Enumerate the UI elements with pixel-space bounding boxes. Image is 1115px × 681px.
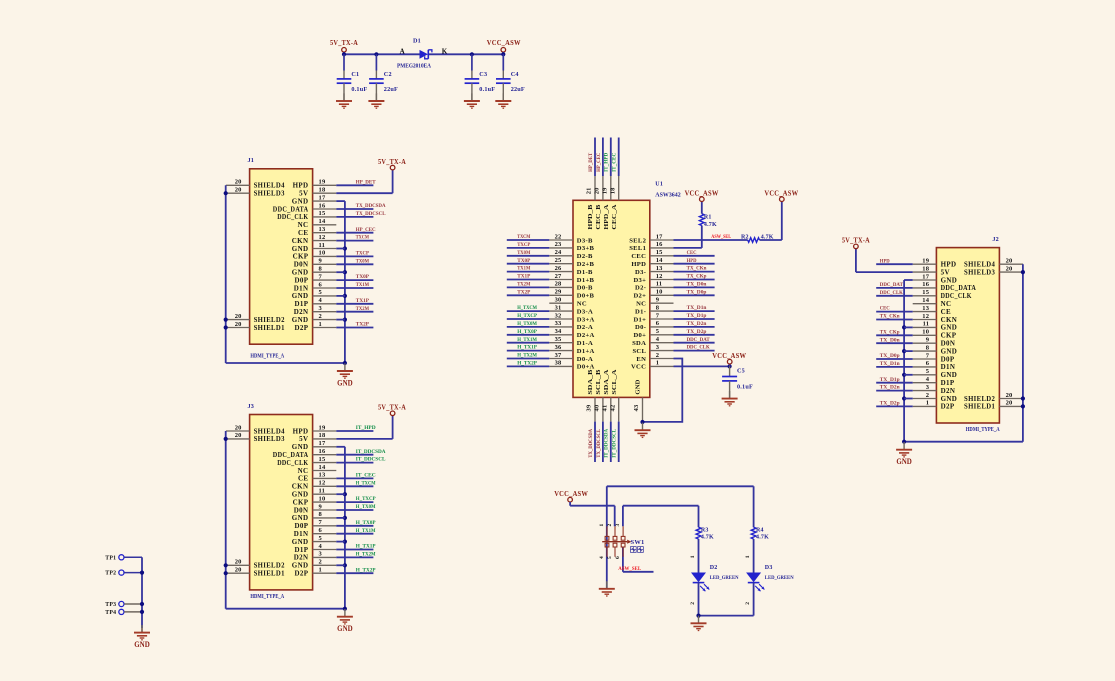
svg-text:2: 2 (319, 313, 322, 320)
svg-text:18: 18 (319, 432, 326, 439)
svg-text:SHIELD2: SHIELD2 (254, 562, 285, 570)
svg-text:37: 37 (555, 352, 562, 359)
svg-text:20: 20 (235, 424, 242, 431)
svg-text:H_TX0M: H_TX0M (356, 504, 376, 510)
svg-text:TXCP: TXCP (517, 242, 531, 248)
svg-text:TX_D1p: TX_D1p (880, 377, 900, 383)
svg-text:TP4: TP4 (105, 610, 116, 616)
svg-text:8: 8 (319, 266, 323, 273)
svg-text:J3: J3 (248, 403, 255, 410)
svg-text:SHIELD1: SHIELD1 (254, 570, 285, 578)
svg-text:6: 6 (319, 527, 323, 534)
svg-text:GND: GND (941, 347, 958, 355)
svg-text:7: 7 (926, 352, 930, 359)
svg-text:HP_DET: HP_DET (588, 153, 594, 172)
svg-text:HPD_B: HPD_B (587, 204, 594, 230)
svg-text:24: 24 (555, 249, 562, 256)
svg-text:2: 2 (319, 559, 322, 566)
svg-text:C1: C1 (351, 71, 359, 78)
svg-text:20: 20 (1006, 400, 1013, 407)
svg-text:D2-B: D2-B (577, 253, 593, 260)
svg-text:28: 28 (555, 281, 562, 288)
svg-text:GND: GND (635, 379, 642, 394)
svg-text:1: 1 (745, 555, 751, 558)
svg-text:H_TX2M: H_TX2M (356, 552, 376, 558)
svg-text:4.7K: 4.7K (756, 535, 769, 541)
svg-text:5V: 5V (299, 435, 308, 443)
svg-text:R2: R2 (741, 234, 749, 240)
svg-text:11: 11 (319, 488, 326, 495)
svg-text:4.7K: 4.7K (761, 234, 774, 240)
svg-text:13: 13 (319, 226, 326, 233)
svg-text:42: 42 (609, 405, 616, 412)
svg-text:TX_D0p: TX_D0p (687, 289, 707, 295)
svg-text:20: 20 (1006, 265, 1013, 272)
svg-text:D2: D2 (710, 565, 718, 571)
svg-text:1: 1 (690, 555, 696, 558)
svg-text:NC: NC (941, 300, 952, 308)
svg-text:10: 10 (319, 495, 326, 502)
svg-text:CE: CE (298, 229, 308, 237)
svg-text:6: 6 (615, 556, 621, 559)
svg-text:LED_GREEN: LED_GREEN (765, 575, 795, 581)
svg-text:20: 20 (235, 179, 242, 186)
svg-text:DDC_DATA: DDC_DATA (273, 205, 309, 213)
svg-text:11: 11 (319, 242, 326, 249)
svg-text:D1P: D1P (295, 546, 309, 554)
svg-text:41: 41 (601, 405, 608, 412)
svg-text:CEC: CEC (880, 306, 890, 312)
svg-text:C3: C3 (479, 71, 487, 78)
svg-text:30: 30 (555, 297, 562, 304)
svg-text:D1N: D1N (294, 284, 309, 292)
svg-text:HP_CEC: HP_CEC (596, 153, 602, 172)
svg-text:16: 16 (922, 281, 929, 288)
svg-text:VCC_ASW: VCC_ASW (487, 38, 521, 47)
svg-text:D0P: D0P (295, 276, 309, 284)
svg-text:CE: CE (298, 475, 308, 483)
svg-text:SEL2: SEL2 (629, 237, 646, 244)
svg-text:DDC_CLK: DDC_CLK (277, 459, 308, 467)
svg-text:VCC_ASW: VCC_ASW (685, 189, 719, 198)
svg-text:GND: GND (337, 379, 353, 388)
svg-text:GND: GND (292, 316, 309, 324)
svg-text:12: 12 (319, 480, 326, 487)
svg-text:27: 27 (555, 273, 562, 280)
svg-text:H_TXCP: H_TXCP (517, 313, 537, 319)
svg-text:TX_D0p: TX_D0p (880, 353, 900, 359)
svg-text:4: 4 (319, 543, 323, 550)
svg-text:DDC_DATA: DDC_DATA (273, 451, 309, 459)
svg-text:D2P: D2P (941, 403, 955, 411)
svg-text:SDA_A: SDA_A (603, 369, 610, 394)
svg-text:NC: NC (577, 301, 587, 308)
svg-text:GND: GND (292, 538, 309, 546)
svg-text:39: 39 (586, 404, 593, 411)
svg-text:20: 20 (235, 432, 242, 439)
svg-text:DDC_DAT: DDC_DAT (687, 337, 710, 343)
svg-text:H_TXCP: H_TXCP (356, 496, 376, 502)
svg-text:C5: C5 (737, 368, 745, 375)
svg-text:J2: J2 (992, 236, 999, 243)
svg-text:36: 36 (555, 344, 562, 351)
svg-text:D3+B: D3+B (577, 245, 595, 252)
svg-text:GND: GND (292, 514, 309, 522)
svg-text:VCC_ASW: VCC_ASW (554, 489, 588, 498)
svg-text:4: 4 (599, 556, 605, 559)
svg-text:14: 14 (319, 464, 326, 471)
svg-text:TX2M: TX2M (356, 306, 370, 312)
svg-text:22: 22 (555, 233, 562, 240)
svg-text:VCC: VCC (631, 364, 646, 371)
svg-text:TX0P: TX0P (356, 274, 370, 280)
svg-text:33: 33 (555, 320, 562, 327)
svg-text:DDC_DATA: DDC_DATA (941, 284, 977, 292)
svg-text:GND: GND (941, 276, 958, 284)
svg-text:TP2: TP2 (105, 571, 116, 577)
svg-text:TX_D2n: TX_D2n (880, 385, 901, 391)
svg-text:TX_D2p: TX_D2p (880, 401, 900, 407)
svg-text:3: 3 (319, 551, 323, 558)
svg-text:GND: GND (941, 395, 958, 403)
svg-text:5V_TX-A: 5V_TX-A (330, 38, 358, 47)
svg-text:CKN: CKN (292, 237, 309, 245)
svg-text:SCL_A: SCL_A (611, 369, 618, 394)
svg-text:CEC_A: CEC_A (611, 204, 618, 229)
svg-text:SHIELD1: SHIELD1 (964, 403, 995, 411)
svg-text:H_TX0M: H_TX0M (517, 321, 537, 327)
svg-text:HP_CEC: HP_CEC (356, 227, 376, 233)
svg-text:DDC_DAT: DDC_DAT (880, 282, 903, 288)
svg-text:18: 18 (922, 265, 929, 272)
svg-text:TX0P: TX0P (517, 258, 531, 264)
svg-text:DDC_CLK: DDC_CLK (277, 213, 308, 221)
svg-text:ASW3642: ASW3642 (655, 193, 680, 199)
svg-text:GND: GND (292, 245, 309, 253)
svg-text:HPD: HPD (880, 258, 890, 264)
svg-text:TX2P: TX2P (517, 289, 531, 295)
svg-text:TP1: TP1 (105, 555, 116, 561)
svg-text:DDC_CLK: DDC_CLK (880, 290, 904, 296)
svg-text:TX_DDCSDA: TX_DDCSDA (588, 428, 594, 458)
svg-text:C2: C2 (384, 71, 392, 78)
svg-text:19: 19 (319, 424, 326, 431)
svg-text:C4: C4 (511, 71, 519, 78)
svg-text:H_TX0P: H_TX0P (356, 520, 376, 526)
svg-text:11: 11 (923, 321, 930, 328)
svg-text:TX1M: TX1M (517, 266, 531, 272)
svg-text:D0N: D0N (941, 340, 956, 348)
svg-text:TX_DDCSCL: TX_DDCSCL (596, 429, 602, 458)
svg-text:1: 1 (319, 567, 322, 574)
svg-text:11: 11 (656, 281, 663, 288)
svg-text:20: 20 (1006, 258, 1013, 265)
svg-text:8: 8 (926, 344, 930, 351)
svg-text:9: 9 (319, 258, 323, 265)
svg-text:GND: GND (337, 624, 353, 633)
svg-text:H_TX2M: H_TX2M (517, 353, 537, 359)
svg-text:18: 18 (609, 187, 616, 194)
svg-text:TX_D0n: TX_D0n (880, 337, 901, 343)
svg-text:35: 35 (555, 336, 562, 343)
svg-text:5V_TX-A: 5V_TX-A (842, 236, 870, 245)
svg-text:TXCP: TXCP (356, 251, 370, 257)
svg-text:13: 13 (656, 265, 663, 272)
svg-text:GND: GND (941, 371, 958, 379)
svg-text:15: 15 (319, 456, 326, 463)
svg-text:HDMI_TYPE_A: HDMI_TYPE_A (250, 594, 284, 600)
svg-text:CE: CE (941, 308, 951, 316)
svg-text:4: 4 (319, 297, 323, 304)
svg-text:SCL_B: SCL_B (595, 369, 602, 395)
svg-text:SHIELD4: SHIELD4 (254, 427, 285, 435)
svg-text:D2-: D2- (635, 285, 646, 292)
svg-text:D2+A: D2+A (577, 332, 595, 339)
svg-text:D1+B: D1+B (577, 277, 595, 284)
svg-text:TX2P: TX2P (356, 322, 370, 328)
svg-text:1: 1 (926, 400, 929, 407)
svg-text:H_TX1M: H_TX1M (356, 528, 376, 534)
svg-text:GND: GND (292, 562, 309, 570)
svg-text:H_TXCM: H_TXCM (356, 480, 376, 486)
svg-text:D2P: D2P (295, 570, 309, 578)
svg-text:HDMI_TYPE_A: HDMI_TYPE_A (966, 427, 1000, 433)
svg-text:6: 6 (656, 320, 660, 327)
svg-text:D0+B: D0+B (577, 293, 595, 300)
svg-text:HDMI_TYPE_A: HDMI_TYPE_A (250, 354, 284, 360)
svg-text:DDC_CLK: DDC_CLK (941, 292, 972, 300)
svg-text:NC: NC (636, 301, 646, 308)
svg-text:D2N: D2N (941, 387, 956, 395)
svg-text:D1P: D1P (941, 379, 955, 387)
svg-text:DDC_CLK: DDC_CLK (687, 345, 711, 351)
svg-text:10: 10 (319, 250, 326, 257)
svg-text:LED_GREEN: LED_GREEN (710, 575, 740, 581)
svg-text:IT_DDCSDA: IT_DDCSDA (356, 449, 387, 455)
svg-text:EN: EN (636, 356, 646, 363)
svg-text:17: 17 (922, 273, 929, 280)
svg-text:GND: GND (292, 491, 309, 499)
svg-text:D0-B: D0-B (577, 285, 593, 292)
svg-text:IT_CEC: IT_CEC (612, 153, 618, 172)
svg-text:8: 8 (656, 304, 660, 311)
svg-text:SHIELD4: SHIELD4 (254, 182, 285, 190)
svg-text:H_TX1P: H_TX1P (356, 544, 376, 550)
svg-text:TX2M: TX2M (517, 282, 531, 288)
svg-text:10: 10 (922, 329, 929, 336)
svg-text:32: 32 (555, 312, 562, 319)
svg-text:D0P: D0P (941, 355, 955, 363)
svg-text:15: 15 (922, 289, 929, 296)
svg-text:20: 20 (235, 567, 242, 574)
svg-text:CEC: CEC (631, 253, 646, 260)
svg-text:SDA: SDA (632, 340, 646, 347)
svg-text:TXCM: TXCM (356, 235, 370, 241)
svg-text:SHIELD3: SHIELD3 (254, 190, 285, 198)
svg-text:5V: 5V (299, 190, 308, 198)
svg-text:A: A (400, 47, 405, 55)
svg-text:5: 5 (926, 368, 930, 375)
svg-text:GND: GND (896, 457, 912, 466)
svg-text:HPD: HPD (687, 258, 697, 264)
svg-text:CEC: CEC (687, 250, 697, 256)
svg-text:SEL1: SEL1 (629, 245, 646, 252)
svg-text:3: 3 (926, 384, 930, 391)
svg-text:1: 1 (319, 321, 322, 328)
svg-text:7: 7 (319, 273, 323, 280)
svg-text:D0-: D0- (635, 324, 646, 331)
svg-text:TX_D1n: TX_D1n (880, 361, 901, 367)
svg-text:6: 6 (319, 281, 323, 288)
svg-text:20: 20 (235, 187, 242, 194)
svg-text:IT_CEC: IT_CEC (356, 473, 376, 479)
svg-text:D1N: D1N (294, 530, 309, 538)
svg-text:6: 6 (926, 360, 930, 367)
svg-text:CKP: CKP (941, 332, 957, 340)
svg-text:VCC_ASW: VCC_ASW (764, 189, 798, 198)
svg-text:SHIELD1: SHIELD1 (254, 324, 285, 332)
svg-text:9: 9 (926, 337, 930, 344)
svg-text:19: 19 (601, 187, 608, 194)
svg-text:25: 25 (555, 257, 562, 264)
svg-text:5: 5 (319, 289, 323, 296)
svg-text:4.7K: 4.7K (701, 535, 714, 541)
svg-text:D0N: D0N (294, 261, 309, 269)
svg-text:ASW_SEL: ASW_SEL (711, 234, 731, 240)
svg-text:TX_D0n: TX_D0n (687, 282, 708, 288)
svg-text:7: 7 (319, 519, 323, 526)
svg-text:HPD_A: HPD_A (603, 204, 610, 229)
svg-text:D3+: D3+ (633, 277, 646, 284)
svg-text:2: 2 (926, 392, 929, 399)
svg-text:0.1uF: 0.1uF (351, 86, 367, 93)
svg-text:GND: GND (134, 640, 150, 649)
svg-text:TX_DDCSCL: TX_DDCSCL (356, 211, 386, 217)
svg-text:IT_HPD: IT_HPD (604, 153, 610, 172)
svg-text:31: 31 (555, 304, 562, 311)
svg-text:R3: R3 (701, 527, 709, 533)
svg-text:TX_CKn: TX_CKn (880, 314, 901, 320)
svg-text:14: 14 (922, 297, 929, 304)
svg-text:D1-B: D1-B (577, 269, 593, 276)
svg-text:NC: NC (298, 467, 309, 475)
svg-text:14: 14 (656, 257, 663, 264)
svg-text:H_TX1P: H_TX1P (517, 345, 537, 351)
svg-text:GND: GND (941, 324, 958, 332)
svg-text:D3: D3 (765, 565, 773, 571)
svg-text:D1-: D1- (635, 308, 646, 315)
svg-text:D0+: D0+ (633, 332, 646, 339)
svg-text:D2+B: D2+B (577, 261, 595, 268)
svg-text:26: 26 (555, 265, 562, 272)
svg-text:5V_TX-A: 5V_TX-A (378, 157, 406, 166)
svg-text:23: 23 (555, 241, 562, 248)
svg-text:TX1P: TX1P (356, 298, 370, 304)
svg-text:12: 12 (922, 313, 929, 320)
svg-text:29: 29 (555, 289, 562, 296)
svg-text:TX_DDCSDA: TX_DDCSDA (356, 203, 386, 209)
svg-text:40: 40 (594, 405, 601, 412)
svg-text:D1+: D1+ (633, 316, 646, 323)
svg-text:H_TX2P: H_TX2P (517, 361, 537, 367)
svg-text:20: 20 (235, 313, 242, 320)
svg-text:U1: U1 (655, 181, 663, 187)
svg-text:IT_HPD: IT_HPD (356, 425, 376, 431)
svg-text:3: 3 (656, 344, 660, 351)
svg-text:22uF: 22uF (384, 86, 398, 93)
svg-text:20: 20 (1006, 392, 1013, 399)
svg-text:H_TX0P: H_TX0P (517, 329, 537, 335)
svg-text:SHIELD3: SHIELD3 (254, 435, 285, 443)
svg-text:D2N: D2N (294, 554, 309, 562)
svg-text:19: 19 (319, 179, 326, 186)
svg-text:SW1: SW1 (631, 539, 645, 546)
svg-text:K: K (442, 48, 448, 56)
svg-text:IT_DDCSDA: IT_DDCSDA (604, 428, 610, 458)
svg-text:TX0M: TX0M (517, 250, 531, 256)
svg-text:2: 2 (690, 602, 696, 605)
svg-text:1: 1 (599, 524, 605, 527)
svg-text:NC: NC (298, 221, 309, 229)
svg-text:20: 20 (594, 187, 601, 194)
svg-text:18: 18 (319, 187, 326, 194)
svg-text:TP3: TP3 (105, 602, 116, 608)
svg-text:TX_CKp: TX_CKp (687, 274, 707, 280)
svg-text:17: 17 (319, 194, 326, 201)
svg-text:14: 14 (319, 218, 326, 225)
svg-text:10: 10 (656, 289, 663, 296)
svg-text:HP_DET: HP_DET (356, 179, 376, 185)
svg-text:D1: D1 (413, 37, 421, 44)
svg-text:TX_CKp: TX_CKp (880, 329, 900, 335)
svg-text:43: 43 (633, 404, 640, 411)
svg-text:PMEG2010EA: PMEG2010EA (397, 64, 432, 70)
svg-text:D1N: D1N (941, 363, 956, 371)
svg-text:16: 16 (319, 448, 326, 455)
svg-text:12: 12 (656, 273, 663, 280)
svg-text:7: 7 (656, 312, 660, 319)
svg-text:D2P: D2P (295, 324, 309, 332)
svg-text:D1+A: D1+A (577, 348, 595, 355)
svg-text:TX_D1p: TX_D1p (687, 313, 707, 319)
svg-text:3: 3 (319, 305, 323, 312)
svg-text:D2+: D2+ (633, 293, 646, 300)
svg-text:IT_DDCSCL: IT_DDCSCL (612, 429, 618, 458)
svg-text:H_TX2P: H_TX2P (356, 567, 376, 573)
svg-text:34: 34 (555, 328, 562, 335)
svg-text:D2-A: D2-A (577, 324, 593, 331)
svg-text:5: 5 (656, 328, 660, 335)
svg-text:9: 9 (656, 297, 660, 304)
svg-text:TX_D1n: TX_D1n (687, 305, 708, 311)
svg-text:HPD: HPD (631, 261, 646, 268)
svg-text:HPD: HPD (941, 261, 957, 269)
svg-text:D2N: D2N (294, 308, 309, 316)
svg-text:HPD: HPD (293, 182, 309, 190)
svg-text:13: 13 (922, 305, 929, 312)
svg-text:R4: R4 (756, 527, 764, 533)
svg-text:16: 16 (656, 241, 663, 248)
svg-text:TX1P: TX1P (517, 274, 531, 280)
svg-text:TX_D2n: TX_D2n (687, 321, 708, 327)
svg-text:20: 20 (235, 559, 242, 566)
svg-text:GND: GND (292, 443, 309, 451)
svg-text:21: 21 (586, 187, 593, 194)
svg-text:ASW_SEL: ASW_SEL (618, 566, 641, 572)
svg-text:D0N: D0N (294, 506, 309, 514)
svg-text:15: 15 (656, 249, 663, 256)
svg-text:D0P: D0P (295, 522, 309, 530)
